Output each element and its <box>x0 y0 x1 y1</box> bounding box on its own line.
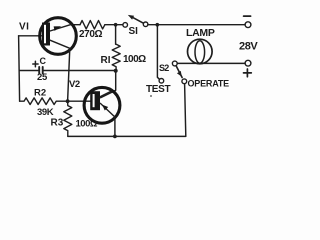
node junction C/R1/V2-collector dot <box>114 69 118 73</box>
svg-text:39K: 39K <box>37 107 54 118</box>
transistor V1 base lead <box>19 35 42 37</box>
wire operate drop <box>185 84 186 136</box>
svg-text:RI: RI <box>101 55 111 66</box>
svg-text:R3: R3 <box>51 118 64 129</box>
capacitor plus sign <box>33 61 38 66</box>
capacitor C plates <box>39 67 43 74</box>
svg-text:R2: R2 <box>34 88 46 99</box>
svg-text:LAMP: LAMP <box>186 27 215 39</box>
node junction emitter-rail dot <box>113 135 117 139</box>
node junction S2-test dot <box>156 23 160 27</box>
wire top rail left segment <box>71 24 80 26</box>
wire rail between 270 and S1 <box>105 24 123 26</box>
switch S2 operate contact <box>182 79 187 84</box>
svg-text:28V: 28V <box>239 41 258 53</box>
transistor V2 circle <box>84 87 120 123</box>
wire rail right of S1 <box>148 24 245 26</box>
wire lamp row <box>177 62 245 64</box>
lamp filament ellipse <box>195 41 205 63</box>
transistor V2 base bar <box>90 91 100 110</box>
svg-text:OPERATE: OPERATE <box>188 79 230 89</box>
svg-text:25: 25 <box>37 72 48 83</box>
transistor V2 emitter with arrow <box>100 103 115 117</box>
resistor R2 zigzag <box>20 98 91 105</box>
switch S2 test contact <box>159 79 164 84</box>
svg-text:VI: VI <box>19 22 29 33</box>
switch S1 left contact <box>123 23 128 28</box>
resistor R3 zigzag <box>64 101 72 136</box>
wire V2 collector vertical <box>101 71 116 98</box>
transistor V1 emitter with arrow <box>50 24 71 31</box>
node junction R1-top dot <box>114 23 118 27</box>
transistor V1 circle <box>40 18 77 55</box>
wire test drop from rail <box>157 25 159 79</box>
svg-text:V2: V2 <box>69 79 80 90</box>
terminal 28V minus <box>245 22 251 28</box>
switch S1 arm <box>131 17 143 24</box>
stray mark <box>150 95 152 97</box>
resistor R1 leads and zigzag <box>115 25 117 45</box>
svg-text:TEST: TEST <box>146 84 171 95</box>
terminal 28V plus <box>245 60 251 66</box>
wire bottom rail <box>68 135 186 137</box>
svg-text:100Ω: 100Ω <box>123 54 146 65</box>
lamp circle <box>188 39 213 64</box>
switch S2 common contact <box>172 61 177 66</box>
wire capacitor row <box>19 70 38 72</box>
svg-text:SI: SI <box>129 26 139 37</box>
wire V2 emitter drop <box>114 117 116 136</box>
transistor V1 collector <box>50 40 70 48</box>
switch S2 arm with arrow <box>176 66 182 78</box>
svg-text:100Ω: 100Ω <box>76 119 98 130</box>
switch S1 right contact <box>143 22 148 27</box>
wire left vertical V1 base to R2 <box>19 36 20 101</box>
svg-text:S2: S2 <box>159 63 169 73</box>
svg-text:C: C <box>40 56 47 66</box>
node junction R2/V2-base/R3 dot <box>66 99 70 103</box>
transistor V1 base bar <box>42 23 50 46</box>
resistor 270ohm zigzag <box>80 21 105 29</box>
svg-text:270Ω: 270Ω <box>79 29 102 40</box>
wire V1 collector vertical <box>68 48 70 101</box>
transistor V2 collector <box>100 91 112 97</box>
